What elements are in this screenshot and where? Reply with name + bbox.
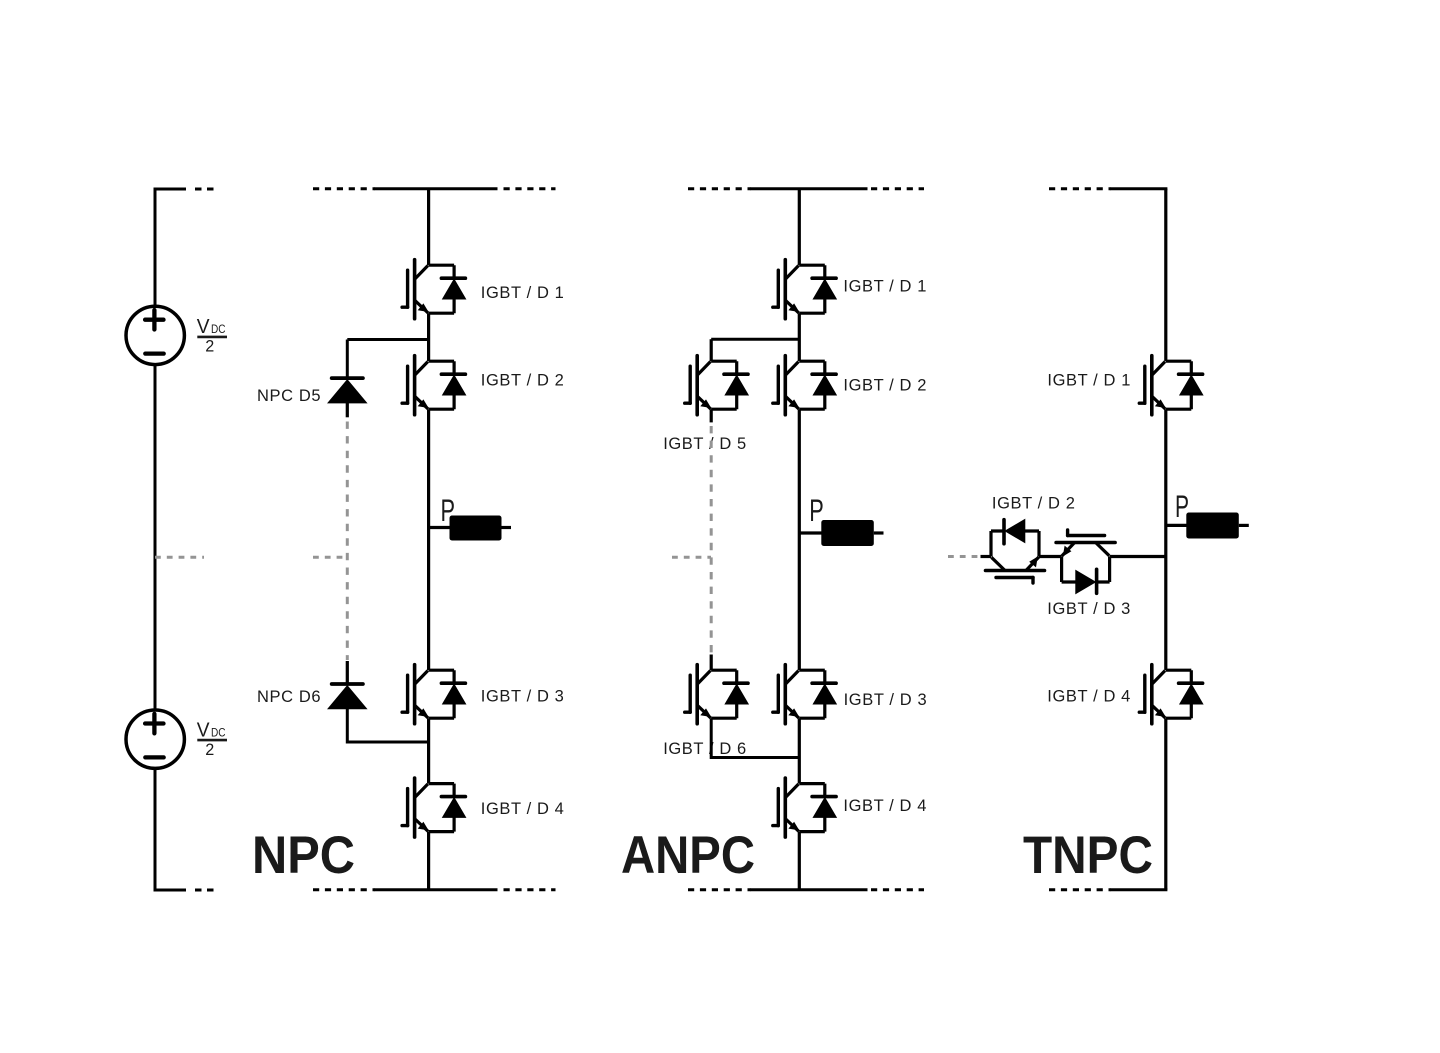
IGBT/D6 (ANPC) <box>685 665 748 724</box>
svg-text:IGBT / D 6: IGBT / D 6 <box>663 740 747 758</box>
wire: ANPC bottom rail dashed left <box>688 888 751 891</box>
wire: stub above D6 <box>346 661 349 683</box>
wire: NPC D5 branch vertical down to diode <box>346 340 349 378</box>
wire: stub below IGBT5 <box>710 409 713 422</box>
diode NPC D5 <box>328 378 366 403</box>
wire: stub to IGBT2 collector <box>981 555 992 558</box>
svg-text:IGBT / D 5: IGBT / D 5 <box>663 435 747 453</box>
wire: NPC D5 branch horizontal <box>347 338 428 341</box>
wire: ANPC main vertical top <box>798 189 801 266</box>
IGBT/D2 (TNPC, rotated) <box>986 520 1045 583</box>
wire: ANPC load lead left <box>799 531 823 534</box>
svg-text:IGBT / D 4: IGBT / D 4 <box>1047 687 1131 705</box>
wire: left DC top rail corner + stub <box>155 189 186 306</box>
svg-text:IGBT / D 1: IGBT / D 1 <box>481 284 565 302</box>
diode NPC D6 <box>328 684 366 709</box>
wire: common emitter link IGBT2-IGBT3 <box>1039 555 1062 558</box>
wire: ANPC main vertical IGBT3-IGBT4 <box>798 718 801 783</box>
IGBT/D3 (TNPC, rotated) <box>1056 530 1115 593</box>
svg-text:NPC: NPC <box>252 826 355 885</box>
wire: left DC bottom rail dashed continuation <box>195 889 217 892</box>
svg-text:IGBT / D 2: IGBT / D 2 <box>481 371 565 389</box>
svg-text:IGBT / D 2: IGBT / D 2 <box>843 376 927 394</box>
wire: NPC main vertical top (rail to IGBT1) <box>427 189 430 266</box>
wire: NPC main vertical IGBT3-IGBT4 with D6 junction <box>427 718 430 783</box>
IGBT/D3 (ANPC) <box>773 665 836 724</box>
svg-text:2: 2 <box>205 741 214 759</box>
svg-text:ANPC: ANPC <box>621 826 755 885</box>
wire: TNPC bottom rail solid <box>1111 888 1168 891</box>
wire: NPC main vertical bottom <box>427 832 430 890</box>
IGBT/D4 (ANPC) <box>773 778 836 837</box>
wire: ANPC upper branch horizontal <box>711 338 799 341</box>
svg-text:V: V <box>197 315 210 338</box>
svg-text:IGBT / D 3: IGBT / D 3 <box>1047 600 1131 618</box>
wire: NPC top rail dashed left <box>313 187 375 190</box>
IGBT/D3 (NPC) <box>402 665 465 724</box>
IGBT/D4 (TNPC) <box>1139 665 1202 724</box>
wire: NPC bottom rail dashed left <box>313 888 375 891</box>
wire: NPC bottom rail solid <box>375 888 498 891</box>
wire: ANPC neutral gray dashed horizontal at midpoint <box>672 556 711 559</box>
IGBT/D2 (ANPC) <box>773 356 836 415</box>
wire: NPC main vertical IGBT1-IGBT2 with D5 junction <box>427 313 430 361</box>
wire: NPC bottom rail dashed right <box>504 888 556 891</box>
svg-text:2: 2 <box>205 338 214 356</box>
svg-text:IGBT / D 3: IGBT / D 3 <box>481 687 565 705</box>
wire: ANPC main vertical IGBT1-IGBT2 <box>798 313 801 361</box>
wire: ANPC top rail dashed left <box>688 187 751 190</box>
wire: NPC top rail solid <box>375 187 498 190</box>
wire: TNPC main vertical top <box>1164 189 1167 361</box>
wire: IGBT3 collector to main <box>1110 555 1166 558</box>
source V2 (lower Vdc/2) <box>126 710 184 768</box>
svg-text:IGBT / D 3: IGBT / D 3 <box>844 691 928 709</box>
wire: left DC middle segment <box>154 365 157 711</box>
wire: below IGBT6 down and right to main <box>711 718 799 757</box>
svg-text:NPC D5: NPC D5 <box>257 387 321 405</box>
load resistor (NPC) <box>450 516 502 541</box>
wire: TNPC top rail dashed left <box>1049 187 1111 190</box>
wire: ANPC main vertical bottom <box>798 832 801 890</box>
wire: TNPC main vertical bottom <box>1164 718 1167 890</box>
wire: ANPC left branch vertical to IGBT5 <box>710 339 713 361</box>
wire: left DC top rail dashed continuation <box>195 188 217 191</box>
wire: below D6 down and right to main <box>347 708 428 742</box>
wire: TNPC bottom rail dashed left <box>1049 888 1111 891</box>
wire: left DC bottom segment + corner stub <box>155 768 186 890</box>
svg-text:IGBT / D 1: IGBT / D 1 <box>843 278 927 296</box>
wire: ANPC main vertical IGBT2-IGBT3 with load junction <box>798 409 801 670</box>
svg-text:TNPC: TNPC <box>1023 826 1153 885</box>
load resistor (TNPC) <box>1186 513 1239 539</box>
wire: TNPC load lead right <box>1239 524 1249 527</box>
wire: TNPC neutral gray dashed <box>948 555 981 558</box>
wire: NPC load lead right <box>502 526 512 529</box>
IGBT/D1 (ANPC) <box>773 260 836 319</box>
IGBT/D2 (NPC) <box>402 356 465 415</box>
wire: ANPC bottom rail solid <box>751 888 868 891</box>
wire: ANPC load lead right <box>874 531 884 534</box>
source V1 (upper Vdc/2) <box>126 306 184 364</box>
wire: neutral gray dashed stub from DC midpoint <box>155 556 204 559</box>
wire: TNPC load lead left <box>1166 524 1188 527</box>
wire: stub below D5 <box>346 403 349 418</box>
wire: NPC top rail dashed right <box>504 187 556 190</box>
load resistor (ANPC) <box>821 520 874 546</box>
IGBT/D5 (ANPC) <box>685 356 748 415</box>
wire: NPC main vertical IGBT2-IGBT3 with load junction <box>427 409 430 670</box>
svg-text:DC: DC <box>211 323 226 336</box>
wire: stub above IGBT6 <box>710 655 713 671</box>
svg-text:IGBT / D 4: IGBT / D 4 <box>843 797 927 815</box>
label Vdc/2 (upper) <box>197 315 227 356</box>
label Vdc/2 (lower) <box>197 718 227 759</box>
IGBT/D4 (NPC) <box>402 778 465 837</box>
svg-text:IGBT / D 1: IGBT / D 1 <box>1047 372 1131 390</box>
wire: TNPC top rail solid <box>1111 187 1168 190</box>
svg-text:NPC D6: NPC D6 <box>257 688 321 706</box>
wire: NPC neutral gray dashed vertical (D5 anode to D6 cathode) <box>346 422 349 661</box>
wire: NPC load lead left <box>429 526 451 529</box>
wire: NPC neutral gray dashed horizontal at midpoint <box>313 556 347 559</box>
wire: TNPC main vertical middle with load and branch junctions <box>1164 409 1167 670</box>
IGBT/D1 (TNPC) <box>1139 356 1202 415</box>
svg-text:IGBT / D 4: IGBT / D 4 <box>481 800 565 818</box>
wire: ANPC bottom rail dashed right <box>871 888 924 891</box>
wire: ANPC top rail solid <box>751 187 868 190</box>
wire: ANPC top rail dashed right <box>871 187 924 190</box>
wire: ANPC neutral gray dashed vertical <box>710 426 713 654</box>
svg-text:V: V <box>197 718 210 741</box>
svg-text:IGBT / D 2: IGBT / D 2 <box>992 495 1076 513</box>
IGBT/D1 (NPC) <box>402 260 465 319</box>
svg-text:DC: DC <box>211 726 226 739</box>
